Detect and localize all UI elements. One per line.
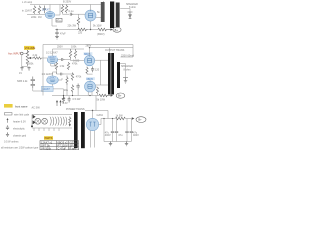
heater arrows (57, 102, 61, 107)
ground: input (20, 67, 23, 71)
svg-text:chassis gnd: chassis gnd (13, 135, 27, 138)
svg-text:VR 500k: VR 500k (41, 146, 52, 150)
wire: T2 center tap (109, 48, 111, 53)
resistor R9 cathode (55, 62, 57, 70)
svg-text:220: 220 (78, 31, 83, 34)
wire: box to bus (53, 89, 63, 96)
resistor R19 divider (66, 76, 68, 86)
wire: V4 cathode join (87, 67, 93, 75)
wire: VR1 wiper arrow (31, 57, 34, 59)
svg-text:47uF: 47uF (60, 33, 66, 36)
transformer PT core left (74, 112, 78, 148)
svg-text:12AX7: 12AX7 (42, 9, 50, 12)
svg-text:1/2 12AX7: 1/2 12AX7 (46, 52, 58, 55)
svg-text:220V 60mA: 220V 60mA (121, 54, 134, 57)
svg-text:6.3V: 6.3V (63, 102, 68, 105)
svg-text:POWER TRANS: POWER TRANS (66, 108, 85, 111)
resistor R3 (61, 5, 64, 14)
feedback network: capacitor C8 (31, 77, 35, 81)
resistor R4 (65, 5, 68, 14)
capacitor C15 (68, 97, 71, 103)
triode V3a (47, 56, 57, 64)
wire: PS feed riser (95, 96, 97, 111)
resistor R11 (74, 49, 76, 59)
capacitor C14 (130, 119, 132, 132)
wire: B+ top rail (30, 4, 103, 6)
wire: grid rail (27, 14, 45, 16)
wire: R5 to bus (78, 25, 80, 29)
speaker SP1 terminal (128, 12, 133, 17)
svg-text:22k 3W: 22k 3W (68, 24, 77, 27)
wire: feedback riser (33, 45, 43, 96)
wire: arrow to B+ mid (107, 95, 111, 97)
svg-text:GZ34: GZ34 (97, 114, 104, 117)
svg-text:5k 10W: 5k 10W (97, 98, 106, 101)
wire: filter line (101, 118, 115, 120)
svg-text:1V: 1V (19, 72, 22, 75)
svg-text:2.2k: 2.2k (33, 54, 38, 57)
wire: to grid network (65, 59, 84, 61)
transformer T1 core middle (115, 2, 116, 29)
ground: speaker return (129, 17, 132, 19)
svg-text:250V: 250V (57, 46, 63, 49)
wire: jack to pot (23, 50, 27, 54)
svg-text:120: 120 (95, 68, 100, 71)
svg-text:1M: 1M (38, 16, 41, 19)
potentiometer VR1 (26, 50, 29, 65)
table frame (40, 141, 79, 150)
wire: PT left vertical (31, 115, 33, 129)
pentode V2 (85, 10, 96, 21)
part label V5 (blue) (86, 77, 95, 80)
wire: V5 plate to OPT (96, 84, 109, 86)
winding taps (34, 128, 59, 131)
wire: PT primary bottom rail (32, 127, 72, 129)
svg-text:0.022: 0.022 (73, 60, 80, 63)
capacitor C1 (43, 6, 46, 14)
svg-text:L ch amp: L ch amp (22, 1, 33, 4)
wire: OPT1 primary lead (103, 1, 105, 22)
ground: speaker2 (123, 78, 128, 84)
svg-text:47u: 47u (57, 19, 62, 22)
transformer PT core right (81, 112, 85, 148)
svg-text:front name: front name (15, 104, 28, 108)
transformer T2 core left A (108, 53, 111, 95)
svg-text:6BQ5: 6BQ5 (84, 53, 91, 56)
wire: R16 stub (96, 87, 98, 96)
capacitor C6 (61, 73, 64, 76)
part label V4 (blue) (84, 52, 93, 55)
wire: arrow to B+ out (132, 117, 135, 119)
capacitor C2 cathode bypass box (56, 18, 62, 22)
feedback network: capacitor C9 (31, 81, 35, 89)
wire: bus continues (88, 29, 98, 31)
junction dots on bus (63, 95, 64, 96)
part label box (blue) under V3b (42, 86, 54, 91)
svg-text:in 12AX7: in 12AX7 (22, 10, 33, 13)
svg-text:PARTS: PARTS (45, 137, 53, 140)
svg-text:400V: 400V (105, 134, 111, 137)
net label B+ oval mid (116, 93, 125, 98)
capacitor C3 coupling (70, 13, 73, 16)
svg-text:B+: B+ (115, 28, 119, 32)
ground: PS 2 (125, 142, 128, 146)
ground: mid bus (62, 96, 65, 102)
wire: after R18 (126, 118, 132, 120)
wire: arrow to B+ (106, 29, 110, 31)
resistor R7 to B+ (98, 28, 106, 31)
wire: V2 cathode down (90, 21, 92, 30)
resistor R12 (67, 62, 69, 70)
wire: V2 to OPT primary (96, 17, 103, 19)
net label VOLUME highlighted (24, 46, 34, 50)
svg-text:100k: 100k (71, 46, 77, 49)
net label B+ oval (113, 27, 121, 32)
wire: tail to bus (73, 90, 79, 96)
capacitor C5 coupling (62, 58, 65, 61)
capacitor C10 V4 bypass (91, 67, 94, 73)
transformer T1 core left (110, 2, 114, 29)
fuse F1 (69, 117, 71, 125)
svg-text:12AX7: 12AX7 (48, 77, 56, 80)
wire: V5 cathode to bus (88, 92, 92, 96)
wire: grid of V2 (73, 14, 85, 17)
wire: V4 plate to OPT (95, 59, 108, 61)
wire: V3b out right (58, 78, 62, 80)
svg-text:B 250V: B 250V (63, 1, 72, 4)
wire: ground bus PS (104, 141, 131, 143)
junction dot (92, 110, 93, 111)
wire: R3 R4 bottoms join (63, 12, 70, 15)
part label overlay V3a (48, 56, 57, 59)
svg-text:0.5 2W: 0.5 2W (73, 98, 82, 101)
connector J1 input jack (21, 52, 24, 55)
triode V3b phase splitter (47, 76, 59, 84)
svg-text:0.5 W unless: 0.5 W unless (4, 141, 19, 144)
wire: B+ line over OPT (43, 45, 133, 58)
wire: V1a plate to coupling (55, 5, 60, 16)
wire: heater leads (91, 131, 95, 148)
capacitor C11 (112, 119, 114, 132)
resistor R20 hum balance (63, 97, 65, 104)
resistor R17 to B+ (99, 94, 107, 97)
transformer T1 core right (116, 3, 120, 28)
legend: yellow swatch (4, 104, 13, 108)
svg-text:285V: 285V (86, 44, 92, 47)
svg-text:OUTPUT TRANS: OUTPUT TRANS (105, 49, 125, 52)
wire: B+ rail middle (53, 48, 85, 50)
svg-text:VOLUME: VOLUME (25, 47, 36, 50)
svg-text:AC SW: AC SW (32, 107, 41, 110)
svg-text:electrolytic: electrolytic (13, 128, 26, 131)
svg-text:1k 5W: 1k 5W (116, 115, 124, 118)
resistor R18 filter (116, 117, 126, 120)
svg-text:Aux INPUT: Aux INPUT (8, 51, 21, 55)
wire: plate of V1a to rail (49, 5, 51, 12)
wire: rectifier plate riser (92, 111, 94, 119)
inductor OPT1 primary winding (101, 2, 105, 22)
wire: screen tap link (100, 60, 102, 85)
rectifier V6 (86, 118, 98, 130)
wire: V2 plate up to rail (90, 5, 92, 11)
inductor PT primary winding (50, 117, 67, 126)
capacitor C13 (126, 119, 128, 132)
junction dot (56, 29, 57, 30)
legend: line sample (5, 113, 13, 115)
resistor R6 on bus (77, 28, 88, 31)
wire: HV secondary top (85, 110, 108, 112)
transformer T2 secondary core (117, 62, 120, 88)
junction dot V2 cathode (90, 29, 91, 30)
svg-text:NFB 2.2k: NFB 2.2k (17, 80, 28, 83)
resistor R15 V4 cathode (86, 67, 88, 74)
wire: mid ground bus (52, 95, 99, 97)
part label overlay V3b (48, 76, 57, 79)
wire: to V3a grid (41, 57, 47, 59)
wire: cathode of V1a down (52, 19, 57, 26)
switch arrows on AC line (33, 115, 36, 119)
legend: arrow symbol (7, 119, 9, 123)
svg-text:5k 10W: 5k 10W (93, 25, 102, 28)
resistor R10 plate load (69, 49, 71, 59)
ground: PS 1 (109, 142, 112, 146)
resistor R2 (38, 6, 41, 14)
pentode V4 upper output tube (84, 55, 94, 65)
wire: rectifier output (99, 119, 101, 125)
lamp PL1 (35, 118, 41, 124)
wire: phase splitter link (53, 70, 61, 76)
resistor R13 (71, 73, 73, 81)
triode V1a (45, 11, 55, 18)
svg-text:470k: 470k (76, 76, 82, 79)
ground: pot (27, 67, 30, 71)
svg-text:B+: B+ (118, 94, 122, 98)
wire: first cap drop (103, 119, 105, 142)
wire: PT primary top rail (32, 114, 72, 116)
legend: ground symbol (6, 132, 9, 136)
pentode V5 lower output tube (85, 81, 96, 92)
wire: V3a plate to rail (52, 49, 54, 56)
svg-text:wire link code: wire link code (14, 113, 30, 116)
svg-text:1.5k: 1.5k (60, 65, 65, 68)
svg-text:47u: 47u (118, 134, 123, 137)
svg-text:500k: 500k (28, 62, 34, 65)
capacitor C4 on bus (55, 30, 58, 37)
junction dot AC (31, 125, 33, 127)
capacitor C7 (76, 84, 79, 90)
lamp PL2 (42, 118, 48, 124)
wire: V3a cathode (51, 63, 57, 66)
wire: T2 secondary out (120, 64, 126, 78)
wire: cathode bus (55, 29, 77, 31)
wire: T1 secondary to speaker (120, 9, 130, 13)
wire: C6 to R13 (64, 73, 73, 75)
wire: V3a out (58, 59, 62, 61)
svg-text:220k: 220k (31, 16, 37, 19)
resistor R14 tail (71, 85, 73, 93)
wire: V4 top to B+ line (89, 48, 91, 56)
svg-text:8 ohm: 8 ohm (124, 69, 131, 72)
svg-text:12AX7: 12AX7 (48, 56, 56, 59)
svg-text:(360V): (360V) (97, 33, 105, 36)
net label B+ oval out (136, 117, 146, 123)
svg-text:0.1u: 0.1u (69, 10, 74, 13)
svg-text:B+: B+ (138, 118, 142, 122)
legend: capacitor symbol (6, 125, 9, 130)
svg-text:10u: 10u (64, 89, 69, 92)
wire: V3b cathode down (52, 84, 54, 86)
wire: secondary drop (107, 111, 109, 119)
svg-text:C 47uF: C 47uF (58, 146, 67, 150)
resistor R8 grid stopper (34, 57, 42, 59)
resistor R16 V5 cathode (96, 87, 98, 94)
svg-text:heater 6.3V: heater 6.3V (13, 121, 26, 124)
svg-text:400V: 400V (133, 134, 139, 137)
capacitor C12 (116, 119, 118, 132)
svg-text:12AX7: 12AX7 (42, 88, 50, 91)
resistor R5 grid leak (77, 17, 80, 25)
svg-text:6BQ5: 6BQ5 (87, 78, 94, 81)
svg-text:R set: R set (70, 146, 76, 150)
svg-text:470k: 470k (72, 63, 78, 66)
svg-text:all resistors are 1/2W carbon: all resistors are 1/2W carbon type (1, 147, 39, 150)
ground: C4 (55, 36, 59, 39)
junction dots filter (103, 118, 104, 119)
yellow table label (44, 136, 53, 140)
wire: jack ground down (22, 55, 28, 67)
transformer T2 core left B (111, 53, 114, 95)
resistor R1 (33, 6, 36, 14)
